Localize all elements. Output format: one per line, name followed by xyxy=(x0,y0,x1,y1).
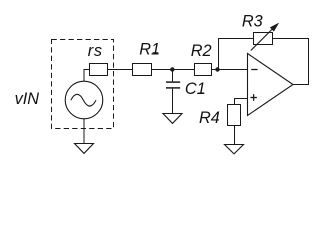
ground under R4 xyxy=(225,145,244,154)
voltage source vIN xyxy=(65,81,103,119)
ground under C1 xyxy=(163,114,182,124)
wire source top to rs xyxy=(84,70,90,82)
svg-text:R2: R2 xyxy=(191,42,212,60)
arrow of variable resistor R3 xyxy=(251,23,279,50)
svg-text:R1: R1 xyxy=(139,40,160,58)
svg-text:vIN: vIN xyxy=(15,90,40,108)
wire plus input to R4 xyxy=(235,99,248,105)
resistor R2 xyxy=(195,64,212,76)
wire R1 to R2 xyxy=(152,69,195,71)
op-amp U1 xyxy=(248,54,294,116)
svg-text:C1: C1 xyxy=(185,80,206,98)
source enclosure dashed box xyxy=(52,40,114,129)
wire node to C1 xyxy=(172,70,174,82)
resistor rs xyxy=(90,64,108,76)
svg-text:R3: R3 xyxy=(242,12,263,30)
resistor R1 xyxy=(133,64,152,76)
wire rs to R1 xyxy=(108,69,133,71)
wire R2 to op-amp minus input xyxy=(212,69,248,71)
node junction feedback tap xyxy=(215,67,219,71)
op-amp minus sign xyxy=(251,69,257,71)
wire feedback up and to R3 xyxy=(219,39,254,70)
svg-text:R4: R4 xyxy=(199,109,220,127)
wire R3 to output corner xyxy=(273,39,309,85)
wire R4 to ground xyxy=(234,126,236,145)
ground under source xyxy=(75,144,94,154)
capacitor C1 xyxy=(166,82,180,88)
op-amp plus sign xyxy=(250,94,257,101)
resistor R3 (variable) xyxy=(254,33,273,45)
wire C1 to ground xyxy=(172,89,174,114)
wire source bottom to ground xyxy=(83,119,85,144)
node junction at C1 tap xyxy=(170,67,174,71)
svg-text:rs: rs xyxy=(88,42,103,60)
resistor R4 xyxy=(228,105,241,126)
